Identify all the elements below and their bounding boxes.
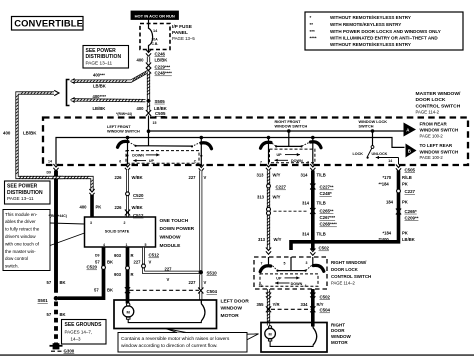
label 355 Y/R xyxy=(257,302,280,307)
connector C505 symbol lock xyxy=(396,165,401,172)
svg-text:W/BK: W/BK xyxy=(132,205,143,210)
connector C505 symbol pin7 xyxy=(266,164,271,171)
off-page arrow B TO LEFT REAR WINDOW SWITCH xyxy=(406,144,417,158)
label C227 left xyxy=(276,185,287,190)
svg-text:UP: UP xyxy=(149,159,155,163)
svg-text:5: 5 xyxy=(284,261,286,265)
svg-text:57: 57 xyxy=(47,280,52,285)
one touch down power window module box xyxy=(85,217,156,247)
svg-text:C512: C512 xyxy=(149,253,160,258)
svg-text:S501: S501 xyxy=(38,298,49,303)
svg-text:5: 5 xyxy=(145,243,147,247)
label UP arrow right switch xyxy=(277,153,301,157)
svg-text:355: 355 xyxy=(257,302,265,307)
svg-text:2: 2 xyxy=(124,221,126,225)
svg-text:PAGE 114-2: PAGE 114-2 xyxy=(416,109,440,114)
svg-text:DISTRIBUTION: DISTRIBUTION xyxy=(86,54,122,60)
blade dashes left switch xyxy=(128,142,200,146)
wire rw contact line xyxy=(278,270,306,272)
connector C502 symbol right xyxy=(310,249,315,256)
svg-text:4: 4 xyxy=(305,284,307,288)
label C502 lower xyxy=(320,294,331,299)
svg-text:400: 400 xyxy=(80,205,88,210)
connector C505 symbol feed xyxy=(146,110,151,116)
wire 334 R/Y xyxy=(311,289,315,327)
svg-text:C248****: C248**** xyxy=(155,71,173,76)
connector C502 symbol out right xyxy=(310,293,315,300)
label C227** C248* xyxy=(320,185,334,197)
svg-text:SEE POWER: SEE POWER xyxy=(86,48,117,54)
right door window motor box xyxy=(261,323,327,353)
label C512 xyxy=(133,213,144,218)
svg-text:227: 227 xyxy=(189,280,197,285)
wire 184 PK feed xyxy=(291,171,399,251)
pin 3 label xyxy=(307,160,309,164)
svg-text:3: 3 xyxy=(306,261,308,265)
label 226 W/BK upper xyxy=(115,175,143,180)
wire breaker output xyxy=(148,50,150,53)
svg-text:V: V xyxy=(204,175,207,180)
wire 400 LB/BK branch A xyxy=(72,72,149,83)
label DOWN arrow right switch xyxy=(275,159,304,164)
svg-text:14: 14 xyxy=(388,159,392,163)
svg-text:RIGHT WINDOW/: RIGHT WINDOW/ xyxy=(331,260,367,265)
svg-text:314: 314 xyxy=(301,172,309,177)
connector C520 symbol pin14 xyxy=(53,164,58,171)
svg-text:ONE TOUCH: ONE TOUCH xyxy=(160,218,189,224)
label 903 R upper xyxy=(114,253,134,258)
svg-text:MOTOR: MOTOR xyxy=(221,313,240,319)
svg-text:SEE POWER: SEE POWER xyxy=(7,183,38,189)
label 227 V jumper xyxy=(165,267,173,282)
svg-text:PK: PK xyxy=(402,199,408,204)
label 400 LB/BK xyxy=(137,57,168,62)
svg-text:to fully retract the: to fully retract the xyxy=(5,227,40,232)
svg-text:switch.: switch. xyxy=(5,264,19,269)
wire left switch pin6 drop xyxy=(127,138,129,165)
pin C label xyxy=(194,160,197,164)
svg-text:C504: C504 xyxy=(320,308,331,313)
svg-text:6: 6 xyxy=(119,160,121,164)
svg-text:PAGE 13–5: PAGE 13–5 xyxy=(172,36,195,41)
wire 400 LB/BK to C505 xyxy=(147,103,150,111)
rocker contact rw right xyxy=(313,265,324,271)
label UP arrow rw switch xyxy=(276,276,299,280)
connector C265 ring left a xyxy=(267,207,271,211)
label 227 V upper xyxy=(189,175,207,180)
connector C504 symbol rw left xyxy=(266,306,271,312)
pin D9 label xyxy=(47,170,52,174)
junction window lock tap xyxy=(371,129,375,133)
callout lines module note xyxy=(50,223,85,246)
junction small left xyxy=(126,154,202,157)
svg-text:V: V xyxy=(204,280,207,285)
svg-text:57: 57 xyxy=(47,312,52,317)
pin 14 label lock switch xyxy=(388,159,392,163)
label C229*** xyxy=(155,64,171,69)
svg-text:W/Y: W/Y xyxy=(273,172,281,177)
label C520 pin4 xyxy=(87,265,98,270)
svg-text:DOWN POWER: DOWN POWER xyxy=(160,226,195,232)
label UP arrow left switch xyxy=(133,159,154,163)
wire left switch pinC drop xyxy=(200,138,202,165)
svg-text:PK: PK xyxy=(96,205,102,210)
svg-text:I/P FUSE: I/P FUSE xyxy=(172,24,193,30)
svg-text:dow control: dow control xyxy=(5,256,28,261)
label DOWN arrow left switch xyxy=(132,153,159,157)
connector C227 ring left xyxy=(267,184,271,188)
window lock contact circle xyxy=(371,146,374,149)
svg-text:WINDOW SWITCH: WINDOW SWITCH xyxy=(420,128,459,133)
svg-text:WITHOUT REMOTE/KEYLESS ENTRY: WITHOUT REMOTE/KEYLESS ENTRY xyxy=(330,15,411,20)
wire 57 BK main ground drop xyxy=(54,171,58,293)
label **184 PK a xyxy=(379,182,408,187)
window lift glyph right xyxy=(313,323,317,346)
svg-text:PAGE 13–11: PAGE 13–11 xyxy=(86,61,113,66)
label MASTER WINDOW/DOOR LOCK CONTROL SWITCH xyxy=(416,91,461,114)
svg-text:C505: C505 xyxy=(155,111,166,116)
wire 227 V module jumper xyxy=(144,248,200,273)
blade dashes rw switch xyxy=(273,266,312,271)
label LB/BK feeder xyxy=(23,130,37,135)
pins 10 4 labels xyxy=(259,284,307,288)
wire right switch feed drop xyxy=(288,131,290,146)
right window/door lock control switch dashed box xyxy=(254,257,327,289)
svg-text:Contains a reversible motor w: Contains a reversible motor which raises… xyxy=(121,336,230,342)
label 400*** xyxy=(93,72,105,77)
connector C265 ring left b xyxy=(267,211,271,215)
svg-text:UP: UP xyxy=(276,276,282,280)
svg-text:BK: BK xyxy=(107,259,113,264)
svg-text:driver's window: driver's window xyxy=(5,234,36,239)
connector C520 ring pin4 xyxy=(102,266,106,270)
junction right switch pin b xyxy=(311,136,315,140)
contact dots left switch xyxy=(135,145,194,148)
wire 400 LB/BK fuse drop xyxy=(147,57,150,63)
label 400 LB/BK lower xyxy=(137,106,167,111)
fork end branch B xyxy=(71,97,75,102)
wire window lock drop xyxy=(372,131,374,146)
label 400 feeder xyxy=(3,130,11,135)
svg-text:C265**: C265** xyxy=(320,208,334,213)
svg-text:PAGE 100-2: PAGE 100-2 xyxy=(420,155,444,160)
junction rail upper feed xyxy=(147,129,151,133)
svg-text:PK: PK xyxy=(402,230,408,235)
svg-text:MASTER WINDOW/: MASTER WINDOW/ xyxy=(416,91,461,97)
svg-text:ables the driver: ables the driver xyxy=(5,219,36,224)
svg-text:184: 184 xyxy=(386,199,394,204)
svg-text:window according to direction: window according to direction of current… xyxy=(121,343,217,349)
circuit breaker 14 20A C.B. xyxy=(140,24,170,50)
label 313 W/Y 2 xyxy=(257,194,281,199)
label 314 T/LB 1 xyxy=(301,172,326,177)
svg-text:BK: BK xyxy=(60,280,66,285)
connector C265 symbol right xyxy=(310,208,315,214)
svg-text:C520: C520 xyxy=(133,193,144,198)
svg-text:W/Y: W/Y xyxy=(274,237,282,242)
svg-text:WITH REMOTE/KEYLESS ENTRY: WITH REMOTE/KEYLESS ENTRY xyxy=(330,22,401,27)
label ONE TOUCH DOWN POWER WINDOW MODULE xyxy=(160,218,195,249)
label LEFT FRONT WINDOW SWITCH xyxy=(107,125,140,134)
svg-text:W/BK: W/BK xyxy=(132,175,143,180)
svg-text:LB/BK: LB/BK xyxy=(93,83,106,88)
arrow feeder xyxy=(54,90,59,95)
svg-text:WINDOW SWITCH: WINDOW SWITCH xyxy=(420,149,459,154)
connector symbol module pin3 xyxy=(89,189,94,196)
svg-text:***: *** xyxy=(310,29,316,34)
svg-text:DOOR: DOOR xyxy=(331,328,345,333)
wire right switch pin7 drop xyxy=(268,138,270,165)
rocker contact right switch right xyxy=(311,142,322,148)
svg-text:C268****: C268**** xyxy=(320,222,338,227)
svg-text:C505: C505 xyxy=(405,167,416,172)
connector C248 symbol xyxy=(146,68,151,74)
svg-text:*(R/W+44): *(R/W+44) xyxy=(116,112,132,116)
connector C505 symbol pin6 xyxy=(125,164,130,171)
label C504 left xyxy=(207,289,218,294)
connector C504 symbol left xyxy=(125,287,130,293)
svg-text:DOWN: DOWN xyxy=(132,153,144,157)
title box CONVERTIBLE xyxy=(12,17,84,31)
label 313 W/Y 3 xyxy=(258,237,282,242)
svg-text:C.B.: C.B. xyxy=(152,42,159,46)
svg-text:C227: C227 xyxy=(276,185,287,190)
junction right switch pin a xyxy=(267,136,271,140)
svg-text:T/LB: T/LB xyxy=(317,172,326,177)
label 57 BK module lower xyxy=(94,288,113,293)
connector C504 symbol rw right xyxy=(310,306,315,312)
svg-text:CONVERTIBLE: CONVERTIBLE xyxy=(14,18,83,29)
connector C502 symbol out left xyxy=(266,293,271,300)
label UNLOCK xyxy=(372,152,388,156)
svg-text:**: ** xyxy=(310,22,314,27)
wire 355 Y/R xyxy=(267,289,270,326)
svg-text:PK: PK xyxy=(402,182,408,187)
rw switch rocker dashed outline xyxy=(260,274,318,286)
svg-text:C246: C246 xyxy=(155,52,166,57)
wire switch feed vertical xyxy=(148,116,150,146)
label C512 pin5 xyxy=(149,253,160,258)
left switch rocker dashed outline xyxy=(126,151,199,164)
svg-text:WITH POWER DOOR LOCKS AND W: WITH POWER DOOR LOCKS AND WINDOWS ONLY xyxy=(330,29,441,34)
label 227 V lower xyxy=(189,280,207,285)
label *(R/W+44) xyxy=(116,112,132,116)
wire rw pin7 stub xyxy=(268,257,270,267)
svg-text:C227: C227 xyxy=(405,189,416,194)
svg-text:****: **** xyxy=(310,36,317,41)
label 57 BK lower xyxy=(47,312,66,317)
svg-text:DOOR LOCK: DOOR LOCK xyxy=(331,267,359,272)
svg-text:903: 903 xyxy=(114,253,122,258)
connector ring 903 xyxy=(126,266,130,270)
svg-text:C502: C502 xyxy=(320,294,331,299)
svg-text:C229***: C229*** xyxy=(155,64,171,69)
svg-text:WINDOW: WINDOW xyxy=(160,235,182,241)
svg-text:**184: **184 xyxy=(379,182,390,187)
wire left switch contact line R xyxy=(149,145,193,147)
master window/door lock control switch dashed box xyxy=(43,118,468,166)
svg-text:334: 334 xyxy=(301,302,309,307)
connector C246 symbol xyxy=(146,50,151,57)
motor M right xyxy=(265,326,276,341)
connector C227 ring lock xyxy=(397,189,401,193)
svg-text:D9: D9 xyxy=(95,253,100,257)
wire motor internal left xyxy=(128,319,201,322)
label G300 xyxy=(64,348,75,353)
wire 903 R motor feed xyxy=(126,248,130,304)
label LEFT DOOR WINDOW MOTOR xyxy=(221,298,250,319)
svg-text:PAGE 114–2: PAGE 114–2 xyxy=(331,281,355,286)
label FROM REAR WINDOW SWITCH PAGE 100-2 xyxy=(420,121,459,138)
fork end branch A xyxy=(71,79,75,84)
rocker contact rw left xyxy=(260,266,271,272)
connector C502 symbol left xyxy=(266,248,271,255)
svg-text:Y/R: Y/R xyxy=(273,302,280,307)
wire rail lower xyxy=(56,138,405,165)
svg-text:W/Y: W/Y xyxy=(273,194,281,199)
wire right switch pin3 drop xyxy=(312,138,314,165)
svg-text:4: 4 xyxy=(103,243,105,247)
svg-text:the master win-: the master win- xyxy=(5,249,36,254)
svg-text:BK: BK xyxy=(107,288,113,293)
svg-text:with one touch of: with one touch of xyxy=(5,241,40,246)
svg-text:14: 14 xyxy=(48,160,52,164)
label C505 feed xyxy=(155,111,166,116)
connector C227 symbol right xyxy=(310,184,315,190)
label 57 BK upper xyxy=(47,280,66,285)
svg-text:C267***: C267*** xyxy=(320,215,336,220)
dashed connector link xyxy=(274,210,309,212)
wire 313 W/Y xyxy=(267,171,270,249)
connector C505 symbol pin3 xyxy=(310,164,315,171)
label S501 xyxy=(38,298,49,303)
connector C265 symbol lock xyxy=(396,209,401,215)
svg-text:S510: S510 xyxy=(207,270,218,275)
wire 400 PK module feed xyxy=(90,195,94,217)
label 903 R lower xyxy=(114,272,134,277)
svg-text:LB/BK: LB/BK xyxy=(23,130,37,135)
wire 226 W/BK xyxy=(126,170,129,217)
svg-text:DOWN: DOWN xyxy=(291,159,303,163)
label C227 lock xyxy=(405,189,416,194)
svg-text:20A: 20A xyxy=(152,38,159,42)
svg-text:WINDOW: WINDOW xyxy=(221,305,243,311)
ground G300 xyxy=(50,343,63,351)
label 184 PK xyxy=(386,199,408,204)
svg-text:T/LB: T/LB xyxy=(317,200,326,205)
label S505 xyxy=(155,99,166,104)
svg-text:*(R/W+44C): *(R/W+44C) xyxy=(49,214,67,218)
wire 227 V into motor xyxy=(199,293,202,301)
wire 57 BK module ground xyxy=(58,248,104,299)
svg-text:LB/BK: LB/BK xyxy=(402,237,415,242)
page edge line bottom xyxy=(0,354,474,356)
svg-text:313: 313 xyxy=(257,194,265,199)
svg-text:DOOR LOCK: DOOR LOCK xyxy=(416,97,446,103)
svg-text:WINDOW LOCK: WINDOW LOCK xyxy=(359,120,388,124)
window lift glyph left xyxy=(201,300,205,321)
svg-text:LB/BK: LB/BK xyxy=(93,106,106,111)
svg-text:226: 226 xyxy=(115,205,123,210)
contact dots rw switch xyxy=(276,270,306,272)
svg-text:*170: *170 xyxy=(383,175,392,180)
svg-text:CONTROL SWITCH: CONTROL SWITCH xyxy=(331,274,371,279)
rocker contact left switch right xyxy=(201,143,212,149)
power tag HOT IN ACC OR RUN xyxy=(131,11,179,20)
svg-text:*: * xyxy=(310,15,312,20)
junction left switch up pin xyxy=(200,136,204,140)
svg-text:WITHOUT REMOTE/KEYLESS ENTRY: WITHOUT REMOTE/KEYLESS ENTRY xyxy=(330,42,411,47)
label 227 V pin5 xyxy=(134,259,152,264)
right switch rocker dashed outline xyxy=(270,149,315,163)
pin 15 xyxy=(153,121,157,125)
label C505 lock xyxy=(405,167,416,172)
svg-text:V: V xyxy=(167,277,170,282)
svg-text:C502: C502 xyxy=(319,246,330,251)
svg-text:V: V xyxy=(149,259,152,264)
svg-text:FROM REAR: FROM REAR xyxy=(420,121,448,126)
note box SEE GROUNDS xyxy=(62,320,107,345)
pin D9 label module xyxy=(95,253,100,257)
label C504 right xyxy=(320,308,331,313)
svg-text:D9: D9 xyxy=(47,170,52,174)
svg-text:3: 3 xyxy=(307,160,309,164)
pin 7 label xyxy=(260,160,262,164)
svg-text:314: 314 xyxy=(302,200,310,205)
door boundary dashed left xyxy=(130,289,200,291)
wire left switch contact line L xyxy=(136,145,149,147)
wire rw feed stub xyxy=(290,257,292,271)
svg-text:313: 313 xyxy=(257,172,265,177)
svg-text:SWITCH: SWITCH xyxy=(359,125,374,129)
label *170 R/LB xyxy=(383,175,412,180)
label 314 T/LB 2 xyxy=(302,200,326,205)
label C502 upper xyxy=(319,246,330,251)
wire 400 LB/BK feeder xyxy=(16,92,94,192)
svg-text:**400: **400 xyxy=(379,237,390,242)
label 57 BK module xyxy=(95,259,113,264)
svg-text:WINDOW: WINDOW xyxy=(331,334,351,339)
connector C504 symbol v xyxy=(198,288,203,294)
rocker contact right switch left xyxy=(261,142,272,148)
wire 400 LB/BK main drop xyxy=(147,72,150,100)
label C520 xyxy=(133,193,144,198)
svg-text:TO LEFT REAR: TO LEFT REAR xyxy=(420,143,453,148)
connector C229 symbol xyxy=(146,63,151,69)
caption box reversible motor xyxy=(118,329,259,352)
label LB/BK branch A xyxy=(93,83,106,88)
wire 314 T/LB xyxy=(311,171,315,251)
svg-text:400****: 400**** xyxy=(93,94,107,99)
door boundary dashed right xyxy=(271,308,311,310)
svg-text:PAGE 13–11: PAGE 13–11 xyxy=(7,196,34,201)
svg-text:903: 903 xyxy=(114,272,122,277)
svg-text:C248*: C248* xyxy=(320,191,332,196)
label *(R/W+44C) xyxy=(49,214,67,218)
label C246 xyxy=(155,52,166,57)
pins 7 5 3 labels xyxy=(261,261,308,265)
svg-text:226: 226 xyxy=(115,175,123,180)
label TO LEFT REAR WINDOW SWITCH PAGE 100-2 xyxy=(420,143,459,160)
note box SEE POWER DISTRIBUTION PAGE 13-11 (upper) xyxy=(83,46,129,69)
splice S510 xyxy=(199,270,203,274)
svg-text:BK: BK xyxy=(60,312,66,317)
svg-text:C209**: C209** xyxy=(405,215,419,220)
label LB/BK branch B xyxy=(93,106,106,111)
label 400 PK xyxy=(80,205,102,210)
svg-text:T/LB: T/LB xyxy=(317,231,326,236)
svg-text:313: 313 xyxy=(258,237,266,242)
